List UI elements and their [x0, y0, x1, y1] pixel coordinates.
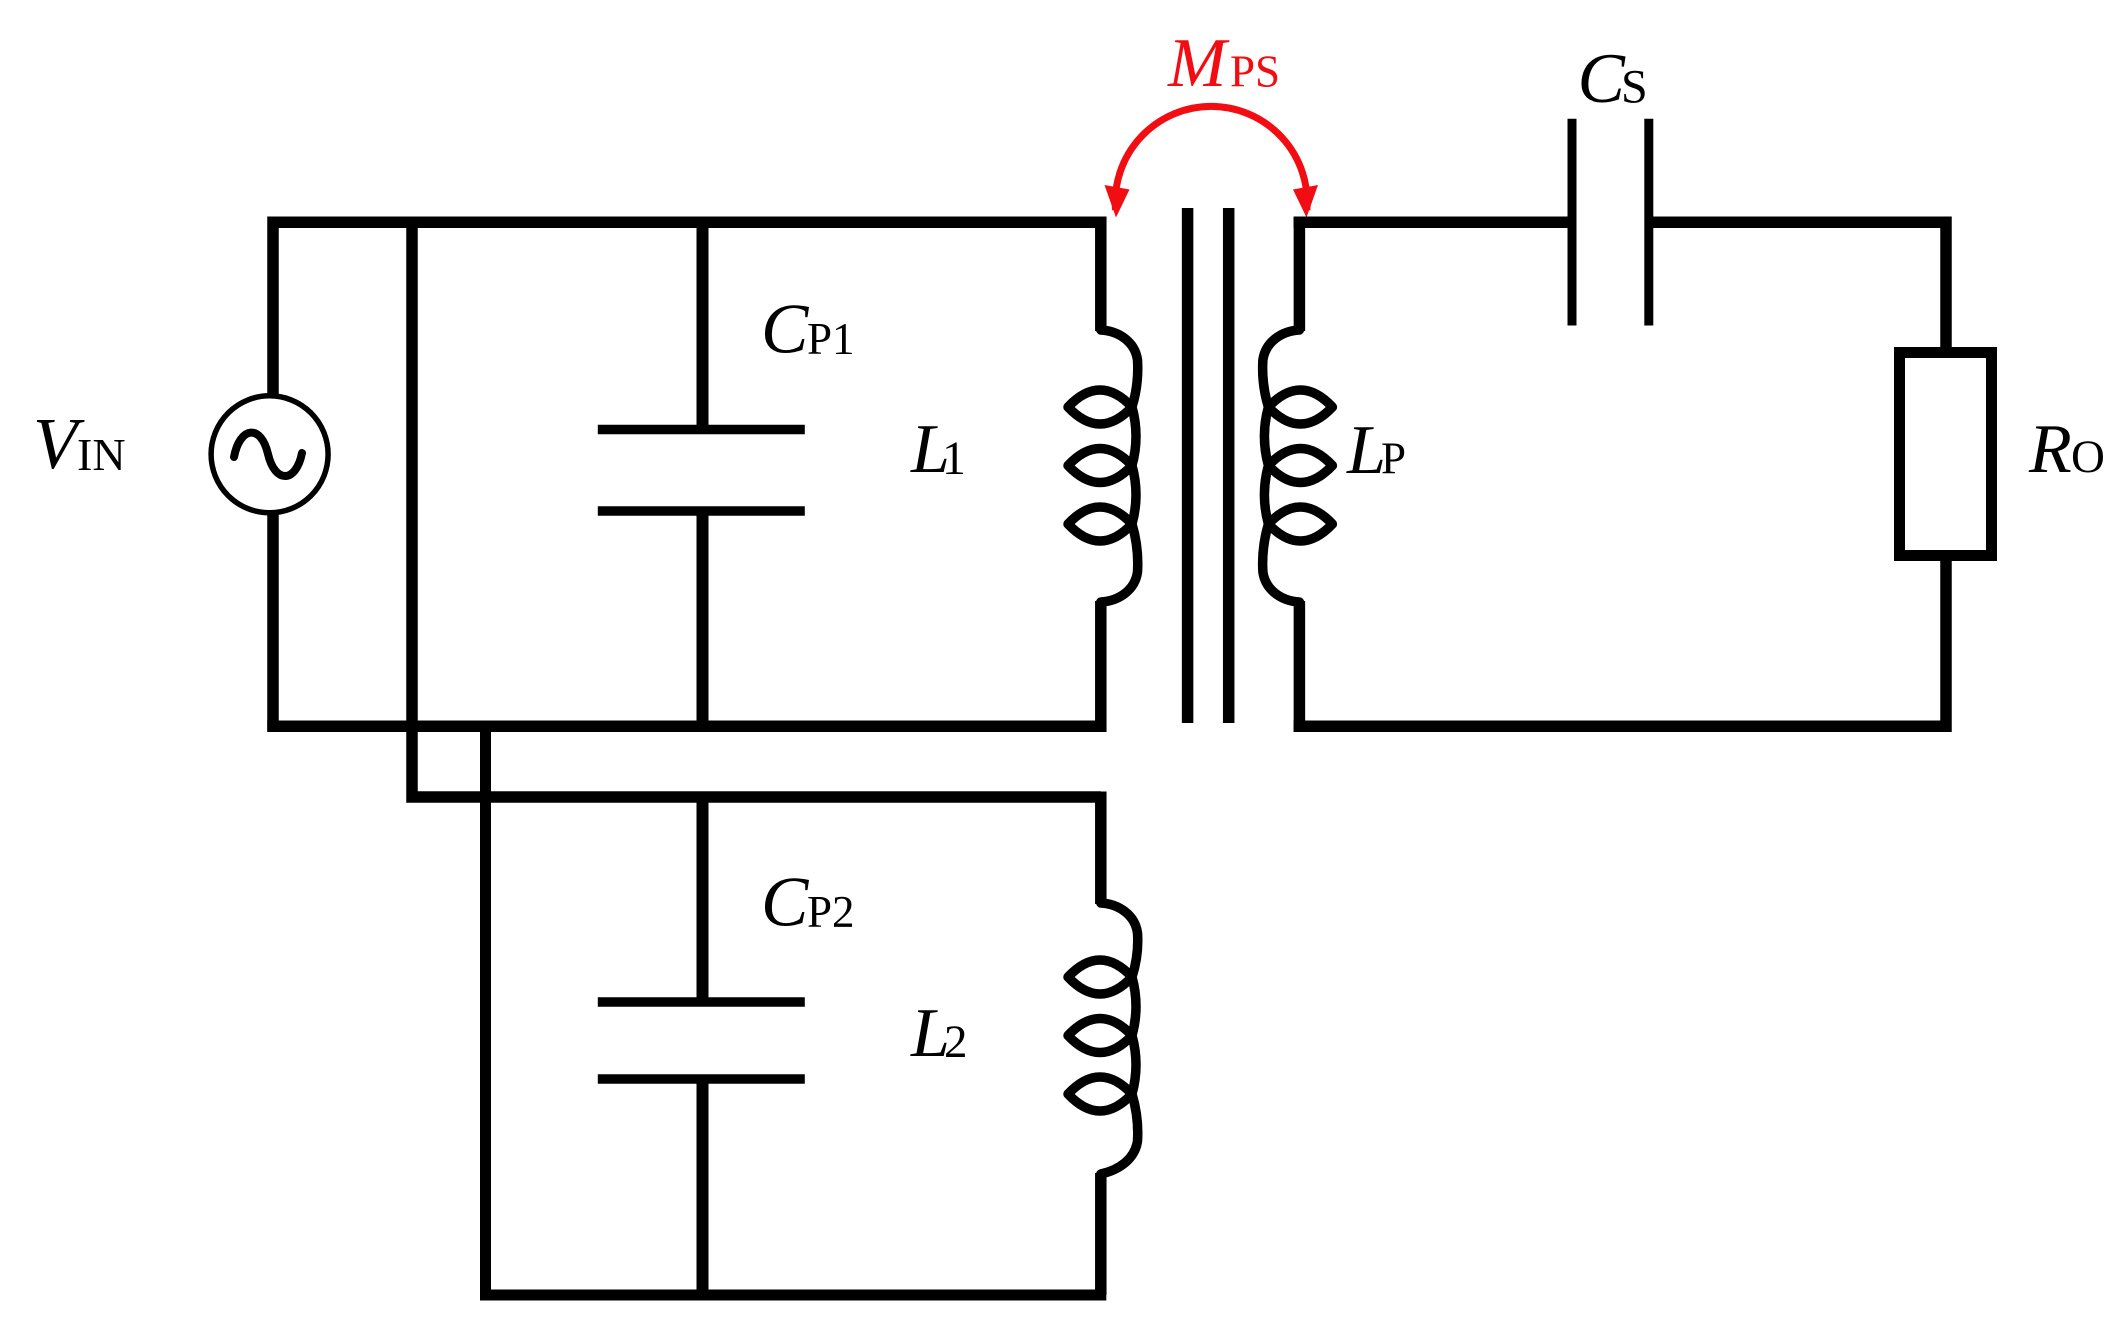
svg-text:C: C [761, 864, 810, 942]
wire top-left loop: left vertical + top wire [273, 222, 1101, 732]
svg-text:S: S [1621, 61, 1648, 114]
inductor L2 top lead [1095, 792, 1107, 905]
mutual inductance MPS red arc [1115, 106, 1307, 210]
capacitor CP1 bottom plate [598, 506, 805, 516]
capacitor CP1 top plate [598, 425, 805, 435]
svg-text:O: O [2071, 431, 2105, 483]
wire second vertical x=412 down to lower-loop top wire [412, 217, 1101, 798]
inductor L2 bottom lead [1095, 1173, 1107, 1295]
svg-text:PS: PS [1230, 47, 1280, 97]
inductor LP bottom lead [1294, 601, 1306, 732]
svg-text:1: 1 [942, 432, 966, 485]
wire lower loop left vertical and bottom wire [486, 721, 1107, 1295]
capacitor CS left plate [1568, 119, 1577, 326]
transformer core line right [1223, 208, 1235, 723]
wire RO bottom lead and bottom-right wire [1294, 556, 1946, 726]
MPS arrowhead right [1293, 185, 1318, 218]
svg-text:P1: P1 [807, 314, 855, 364]
inductor L1 bottom lead [1095, 601, 1107, 732]
svg-text:M: M [1167, 25, 1230, 102]
capacitor CS right plate [1644, 119, 1653, 326]
wire bottom of top loop [267, 721, 1106, 733]
voltage source VIN sine symbol [234, 433, 302, 476]
inductor L1 winding [1068, 330, 1138, 602]
inductor LP top lead [1294, 217, 1306, 332]
svg-text:C: C [761, 291, 810, 369]
svg-text:P2: P2 [807, 887, 855, 937]
svg-text:IN: IN [77, 429, 126, 480]
capacitor CP2 bottom plate [598, 1074, 805, 1084]
inductor LP winding [1263, 330, 1333, 602]
capacitor CP1 bottom lead [697, 511, 709, 732]
svg-text:2: 2 [944, 1016, 968, 1068]
capacitor CP2 top lead [697, 792, 709, 1003]
capacitor CP1 top lead [697, 217, 709, 430]
inductor L2 winding [1068, 903, 1138, 1174]
voltage source VIN circle [211, 396, 328, 513]
inductor L1 top lead [1095, 217, 1107, 332]
svg-text:P: P [1381, 434, 1406, 484]
capacitor CP2 bottom lead [697, 1079, 709, 1295]
svg-text:L: L [1346, 412, 1386, 489]
capacitor CP2 top plate [598, 997, 805, 1007]
resistor RO box [1900, 353, 1992, 556]
MPS arrowhead left [1105, 185, 1130, 218]
wire top right: LP to CS left plate [1294, 216, 1568, 228]
svg-text:R: R [2028, 411, 2072, 488]
wire CS right plate to top-right corner and down to RO [1649, 222, 1946, 352]
transformer core line left [1182, 208, 1194, 723]
svg-text:C: C [1578, 40, 1627, 118]
